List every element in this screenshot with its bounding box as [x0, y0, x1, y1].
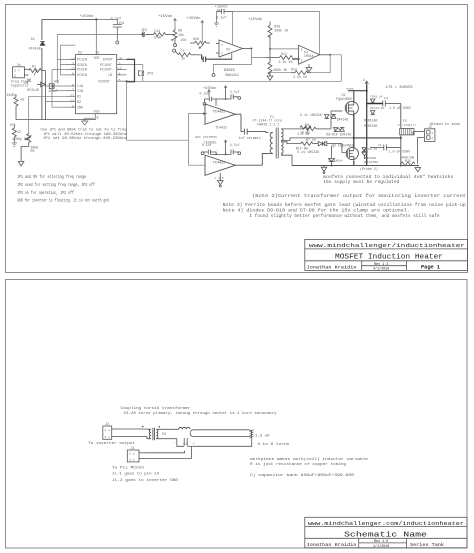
junction +15 node: [95, 18, 97, 20]
svg-text:9: 9: [72, 72, 74, 76]
svg-text:J1: J1: [131, 447, 135, 451]
svg-text:Note 4) diodes D9-D10 and D7-D: Note 4) diodes D9-D10 and D7-D8 for the …: [223, 209, 410, 214]
F2 current transformer core: [400, 129, 414, 135]
svg-text:10k: 10k: [181, 38, 187, 42]
+15 stub mid: [174, 19, 177, 29]
driver1 junction dot: [225, 98, 227, 100]
svg-text:3: 3: [221, 44, 223, 47]
svg-text:PC1OUT: PC1OUT: [100, 63, 112, 67]
svg-text:Attach to tank: Attach to tank: [430, 122, 460, 127]
svg-text:JP1 will 20-52khz through 160-: JP1 will 20-52khz through 160-362khz: [43, 132, 127, 137]
transformer F3 core: [153, 428, 155, 440]
svg-text:2.2k 1%: 2.2k 1%: [293, 75, 307, 79]
svg-text:-: -: [173, 441, 175, 445]
capacitor top feedback 0.1uf: [216, 9, 232, 14]
svg-text:4 to 6 turns: 4 to 6 turns: [257, 442, 290, 447]
svg-text:1 o: 1 o: [129, 453, 135, 456]
svg-text:(Note 2)Current transformer ou: (Note 2)Current transformer output for m…: [252, 194, 467, 199]
svg-text:2: 2: [221, 53, 223, 56]
ground arrow under U2b: [306, 64, 312, 71]
svg-text:14: 14: [71, 57, 75, 61]
svg-text:Jonathan Kraidin: Jonathan Kraidin: [307, 265, 358, 270]
svg-text:JP2 used for setting freq rang: JP2 used for setting freq range, JP3 off: [17, 183, 95, 188]
transformer F3 primary: [147, 429, 151, 438]
svg-text:JP1: JP1: [54, 79, 60, 83]
R5 pot vertical: [25, 132, 32, 144]
driver2 decoupling caps: [201, 140, 241, 155]
svg-text:JP2: JP2: [141, 29, 147, 33]
svg-text:C) capacitor bank 936uF/900uF/: C) capacitor bank 936uF/900uF/390-600: [250, 473, 355, 478]
svg-text:JL-1 goes to pin 14: JL-1 goes to pin 14: [112, 472, 160, 477]
ground arrow driver2: [218, 173, 224, 187]
svg-text:I found slightly better perfor: I found slightly better performance with…: [250, 214, 440, 219]
svg-text:100uF: 100uF: [48, 89, 58, 93]
svg-text:0.1uf: 0.1uf: [202, 143, 212, 147]
transformer F3 polarity dots: [142, 426, 144, 428]
svg-text:2x: 2x: [17, 64, 21, 68]
svg-text:260k 1%: 260k 1%: [273, 68, 287, 72]
zener pair Q2 gate series: [318, 141, 346, 152]
title block page 1 frame: [305, 239, 468, 270]
diode D1: [40, 42, 45, 46]
loop from tube right end down: [194, 439, 252, 447]
svg-text:C1B: C1B: [77, 89, 83, 93]
ground stub under cap: [214, 11, 219, 26]
junction U3 out: [250, 48, 252, 50]
svg-text:1 +: 1 +: [14, 69, 20, 73]
svg-text:+: +: [193, 442, 195, 446]
work coil inductor bumps: [179, 427, 191, 429]
svg-text:VDD: VDD: [94, 56, 100, 60]
svg-text:out screens: out screens: [195, 135, 217, 139]
svg-text:1.0 uF 630V: 1.0 uF 630V: [389, 150, 411, 154]
wire U2b out to drive rail: [330, 55, 341, 82]
op-amp U2 PLL IC box CD4046: [76, 55, 117, 114]
svg-text:16: 16: [95, 51, 99, 55]
jumper JP3: [139, 71, 144, 76]
svg-text:Use JP1 and 680k trim to set F: Use JP1 and 680k trim to set Fo to freq: [41, 128, 127, 133]
wires J2 to transformer: [118, 429, 147, 436]
svg-text:workpiece makes work(coil) ind: workpiece makes work(coil) inductor vari…: [250, 457, 369, 462]
R21 resistor vertical: [268, 49, 272, 76]
secondary bottom loop with cap: [162, 438, 194, 446]
svg-text:JL-2 goes to inverter GND: JL-2 goes to inverter GND: [112, 478, 179, 483]
svg-text:2 -: 2 -: [14, 74, 20, 78]
+15 supply vertical x202: [201, 21, 204, 44]
svg-text:FT-114A(?): FT-114A(?): [398, 123, 416, 127]
svg-text:MUR1560: MUR1560: [364, 118, 377, 122]
svg-text:1: 1: [431, 132, 433, 135]
R18 pot horizontal: [190, 41, 210, 48]
svg-text:C7: C7: [181, 49, 185, 53]
svg-text:1uf ceramic: 1uf ceramic: [239, 136, 261, 141]
junction midpoint: [353, 137, 355, 139]
svg-text:2: 2: [119, 62, 121, 66]
svg-text:2 o: 2 o: [105, 436, 111, 439]
svg-text:R2: R2: [21, 98, 25, 102]
svg-text:R15: R15: [405, 159, 411, 163]
svg-text:LM318: LM318: [304, 54, 314, 58]
svg-text:MOSFET Induction Heater: MOSFET Induction Heater: [335, 254, 443, 262]
op-amp U3 first: [216, 40, 251, 57]
svg-text:LB: LB: [108, 73, 112, 77]
svg-text:3: 3: [301, 49, 303, 52]
svg-text:R1: R1: [32, 65, 36, 69]
C4 top capacitor: [367, 101, 401, 107]
svg-text:JP3 on for operation, JP2 off: JP3 on for operation, JP2 off: [17, 191, 74, 196]
connector J2 page2: [103, 426, 118, 439]
op-amp driver2 TC4422: [205, 155, 262, 175]
title block page 2 frame: [305, 517, 467, 548]
op-amp U2b LM318: [299, 45, 331, 64]
ground below R3: [12, 142, 17, 147]
wire JP3 down to drive rail: [127, 76, 342, 165]
svg-text:INH: INH: [77, 105, 83, 109]
svg-text:HFA1 15: HFA1 15: [365, 148, 378, 151]
resistor R1 pot: [29, 69, 46, 76]
svg-text:8: 8: [97, 116, 99, 120]
jumper JP1: [49, 84, 54, 89]
svg-text:JP1 set 95-85khz through 200-2: JP1 set 95-85khz through 200-230khz: [43, 136, 127, 141]
svg-text:C1: C1: [183, 442, 187, 446]
R6 pot vertical: [172, 28, 178, 47]
svg-text:WRL01560: WRL01560: [364, 161, 379, 164]
svg-text:R1: R1: [77, 95, 81, 99]
svg-text:SIGIN: SIGIN: [77, 63, 87, 67]
IC pin stubs left: [66, 58, 76, 60]
svg-text:JP1: JP1: [10, 123, 16, 127]
IC VDD stub: [95, 19, 97, 54]
transformer F1 core: [276, 128, 278, 159]
svg-text:0.1uf: 0.1uf: [200, 92, 210, 96]
svg-text:C1: C1: [378, 144, 382, 147]
svg-text:2: 2: [301, 59, 303, 62]
svg-text:C2: C2: [17, 130, 21, 134]
svg-text:1/1/2010: 1/1/2010: [373, 544, 389, 549]
svg-text:+15Vdc: +15Vdc: [203, 86, 217, 91]
svg-text:D9/D10 1N4148: D9/D10 1N4148: [326, 132, 351, 136]
svg-text:U2: U2: [78, 51, 82, 55]
svg-text:R6: R6: [178, 29, 182, 33]
svg-text:UF4148: UF4148: [29, 47, 41, 51]
JP2 junction dot: [141, 33, 143, 35]
top feedback wire to U2: [233, 11, 320, 54]
svg-text:F2: F2: [403, 119, 407, 123]
jumper JP2: [143, 32, 145, 37]
page 1 border: [6, 5, 468, 273]
HV bus vertical: [366, 85, 368, 166]
svg-text:R12: R12: [291, 67, 297, 71]
wire transformer secB to rail: [284, 155, 292, 165]
svg-text:J2: J2: [428, 125, 432, 129]
feedback loop wire R12: [270, 55, 330, 73]
wire U3 out down to R11 row: [214, 49, 266, 74]
R12 feedback resistor: [291, 71, 311, 75]
svg-text:+15Vdc: +15Vdc: [186, 16, 201, 21]
feedback vertical from U3 out: [232, 11, 234, 45]
svg-text:VCOIN: VCOIN: [77, 73, 87, 77]
transformer F1 primary winding: [268, 133, 272, 154]
driver1 decoupling cap: [203, 86, 241, 106]
R17 gate pulldown: [300, 126, 311, 130]
freewheel diode column top: [371, 99, 375, 115]
wire secondary to work coil: [162, 428, 179, 430]
svg-text:10k: 10k: [178, 33, 184, 37]
R3 resistor vertical: [12, 125, 16, 142]
svg-text:UF4148: UF4148: [27, 88, 39, 92]
resistor R14: [146, 33, 175, 37]
MOSFET Q1: [345, 101, 358, 114]
svg-text:R11: R11: [281, 52, 287, 56]
svg-text:2 o: 2 o: [129, 458, 135, 461]
svg-text:34 1N914: 34 1N914: [328, 160, 343, 163]
svg-text:5.1v 1N5320: 5.1v 1N5320: [300, 113, 322, 117]
svg-text:R7 10: R7 10: [306, 138, 316, 142]
svg-text:R2: R2: [77, 100, 81, 104]
thick bus EPOUT-VCOOUT: [127, 59, 135, 81]
svg-text:260k 1%: 260k 1%: [274, 28, 288, 32]
page 2 border: [6, 280, 468, 549]
svg-text:Page 1: Page 1: [421, 264, 440, 270]
svg-text:D1: D1: [31, 38, 35, 42]
svg-text:12: 12: [70, 99, 74, 103]
IC pin stubs right: [117, 58, 127, 60]
capacitor C top: [96, 19, 122, 44]
connector J1 page2: [127, 450, 145, 462]
svg-text:C1A: C1A: [77, 84, 83, 88]
svg-text:4/1/2010: 4/1/2010: [373, 267, 389, 272]
svg-text:PC1IN: PC1IN: [77, 58, 87, 62]
svg-text:1N4148: 1N4148: [336, 118, 348, 122]
svg-text:U3: U3: [226, 47, 230, 51]
svg-text:Rev 1.1: Rev 1.1: [374, 263, 388, 267]
svg-text:TC4422: TC4422: [213, 111, 225, 115]
R2 resistor vertical: [14, 95, 18, 120]
ground rail: [292, 165, 419, 167]
svg-text:TVS1 14: TVS1 14: [370, 96, 383, 99]
coupling cap 1uf to primary: [241, 114, 268, 134]
test point circle below U3: [212, 74, 215, 77]
svg-text:F8: F8: [162, 432, 166, 436]
thick wire into U2 minus: [292, 58, 299, 60]
svg-text:C14: C14: [154, 29, 160, 33]
svg-text:4.7uf: 4.7uf: [230, 90, 240, 94]
wire R5 to ground arrow: [21, 144, 29, 162]
R20 resistor vertical: [268, 22, 272, 49]
transformer F1 secondary A: [281, 129, 284, 141]
svg-text:Series Tank: Series Tank: [410, 543, 445, 548]
svg-text:To PLL MCUch: To PLL MCUch: [112, 466, 145, 471]
svg-text:FW#26 1:1:1: FW#26 1:1:1: [257, 122, 279, 126]
svg-text:JP1 and R5 for altering freq r: JP1 and R5 for altering freq range: [17, 175, 86, 180]
Q1 drain wire: [348, 91, 367, 102]
wire driver2 out up to primary bottom: [262, 154, 268, 166]
svg-text:MUR1560: MUR1560: [364, 157, 377, 160]
diodes near Q2 drain: [362, 148, 366, 152]
svg-text:www.mindchallenger/inductionhe: www.mindchallenger/inductionheater: [309, 242, 465, 249]
svg-text:7: 7: [72, 88, 74, 92]
svg-text:www.mindchallenger.com/inducti: www.mindchallenger.com/inductionheater: [308, 520, 464, 527]
junction dots output: [331, 90, 402, 167]
svg-text:bead: bead: [347, 87, 354, 91]
svg-text:D2022: D2022: [224, 69, 235, 73]
svg-text:TC4422: TC4422: [213, 162, 225, 166]
svg-text:Rev 1.0: Rev 1.0: [374, 540, 388, 544]
svg-text:GND for inverter is floating.: GND for inverter is floating. It is not …: [17, 198, 109, 203]
svg-text:Note 3) Ferrite beads before m: Note 3) Ferrite beads before mosfet gate…: [223, 203, 466, 208]
svg-text:EPOUT: EPOUT: [103, 58, 113, 62]
bus top stub: [365, 81, 368, 84]
IC VSS stub: [85, 114, 96, 121]
junction VCOOUT: [126, 80, 128, 82]
work coil tube: [190, 430, 252, 437]
svg-text:24VDc: 24VDc: [7, 93, 17, 97]
Q2 source wire to rail: [353, 161, 355, 166]
R11 resistor: [266, 56, 293, 60]
svg-text:J2: J2: [105, 423, 109, 427]
connector J2 page1: [425, 129, 435, 142]
svg-text:4: 4: [119, 72, 121, 76]
svg-text:R5: R5: [31, 149, 35, 153]
svg-text:+15Vdc: +15Vdc: [79, 14, 94, 19]
wire +15 node to D1: [42, 19, 96, 119]
junction driver1 input: [203, 113, 205, 115]
svg-text:5: 5: [72, 105, 74, 109]
svg-text:SN64412: SN64412: [225, 73, 239, 77]
trimmer symbol: [27, 79, 31, 83]
svg-text:2.2k 1%: 2.2k 1%: [279, 60, 293, 64]
tube right hatched end: [250, 430, 254, 439]
gate resistor R8 row: [284, 111, 343, 131]
ferrite bead Q1 gate: [336, 129, 340, 131]
svg-text:D2: D2: [25, 81, 29, 85]
svg-text:1Φ: 1Φ: [118, 57, 122, 61]
svg-text:3: 3: [72, 62, 74, 66]
coil A return wire to midpoint: [284, 138, 354, 141]
svg-text:1k: 1k: [181, 56, 185, 60]
wire junction to U2 plus: [270, 48, 299, 50]
svg-text:100K: 100K: [154, 36, 162, 40]
wire PLL outputs to JP3: [127, 65, 143, 82]
svg-text:VSS: VSS: [94, 110, 100, 114]
svg-text:ZGL41-60: ZGL41-60: [370, 107, 385, 110]
svg-text:4.7uf: 4.7uf: [230, 143, 240, 147]
svg-text:mosfets connected to individua: mosfets connected to individual 4x6" hea…: [323, 175, 454, 180]
svg-text:0.1uf: 0.1uf: [216, 16, 226, 20]
svg-text:JP3: JP3: [147, 72, 153, 76]
svg-text:PC2IN: PC2IN: [77, 68, 87, 72]
MOSFET Q2: [346, 147, 358, 161]
svg-text:MUR1560: MUR1560: [364, 124, 377, 128]
svg-text:13: 13: [118, 67, 122, 71]
svg-text:2: 2: [363, 78, 365, 82]
resistor R9: [178, 53, 201, 57]
junction U2b out: [329, 54, 331, 56]
transformer F1 secondary B: [281, 142, 284, 155]
svg-text:Jonathan Kraidin: Jonathan Kraidin: [307, 543, 358, 548]
R15 resistor: [401, 162, 415, 166]
svg-text:PC2OUT: PC2OUT: [100, 68, 112, 72]
op-amp driver1 TC4422: [205, 104, 241, 124]
F2 vertical wire: [401, 104, 413, 166]
midpoint rail to F2: [354, 137, 401, 139]
svg-text:C 1.5: C 1.5: [215, 177, 224, 180]
svg-text:15v supply must be regulated: 15v supply must be regulated: [323, 180, 400, 185]
svg-text:170 = 340VDC: 170 = 340VDC: [386, 86, 414, 90]
svg-text:1 o: 1 o: [105, 429, 111, 432]
cap C5 lower output: [370, 145, 401, 151]
svg-text:+15Vdc: +15Vdc: [158, 14, 173, 19]
svg-text:10 5W: 10 5W: [300, 131, 310, 135]
svg-text:22-28 turns primary, tubing th: 22-28 turns primary, tubing through cent…: [124, 411, 278, 416]
svg-text:13: 13: [71, 67, 75, 71]
svg-text:R18: R18: [193, 37, 199, 41]
left loop wires to IC pins: [29, 34, 76, 132]
wires J1 to cap sense: [145, 446, 191, 458]
ground symbol rail left: [321, 166, 327, 174]
ground arrow under R21: [267, 76, 273, 80]
Q1 source thick wire down: [353, 115, 355, 148]
zener pair Q1 gate: [325, 114, 336, 118]
svg-text:5.1v 1N5338: 5.1v 1N5338: [297, 150, 319, 154]
svg-text:C4: C4: [384, 97, 388, 101]
zener chain to rail: [329, 146, 335, 166]
driver2 junction dots: [215, 154, 217, 156]
svg-text:TC4422: TC4422: [215, 125, 227, 129]
svg-text:6: 6: [72, 83, 74, 87]
Q2 gate row R7: [284, 142, 318, 146]
svg-text:Coupling toroid transformer: Coupling toroid transformer: [121, 406, 192, 411]
svg-text:+15Vdc: +15Vdc: [248, 17, 263, 22]
svg-text:To inverter output: To inverter output: [88, 441, 135, 446]
svg-text:2: 2: [431, 137, 433, 140]
clamp diodes D9 D10: [334, 127, 345, 131]
ground under IC: [82, 121, 88, 125]
series cap thick plates: [202, 53, 232, 62]
svg-text:FQA24N50: FQA24N50: [336, 97, 352, 101]
svg-text:1.0 uF 630V: 1.0 uF 630V: [389, 106, 411, 110]
bottom left rail wire: [16, 71, 96, 120]
horizontal wire y34: [57, 33, 153, 35]
svg-text:Schematic Name: Schematic Name: [344, 532, 428, 540]
ground right end: [415, 167, 421, 172]
svg-text:VCOOUT: VCOOUT: [98, 79, 110, 83]
junction R20/R21: [269, 48, 271, 50]
diode D2: [37, 82, 45, 87]
connector J4 freq fine: [13, 67, 29, 78]
freewheel diode Q2: [362, 149, 367, 159]
svg-text:11: 11: [70, 94, 74, 98]
input terminal circle: [173, 49, 179, 54]
svg-text:1.5 uH: 1.5 uH: [255, 435, 270, 439]
transformer F3 secondary: [156, 429, 162, 438]
wire F2 to J2: [414, 132, 425, 164]
svg-text:10k: 10k: [119, 21, 125, 25]
svg-text:(Probe 2): (Probe 2): [360, 167, 378, 171]
svg-text:R is just resistance of copper: R is just resistance of copper tubing: [250, 462, 347, 467]
ground arrow bottom left: [18, 162, 24, 167]
svg-text:6: 6: [119, 78, 121, 82]
